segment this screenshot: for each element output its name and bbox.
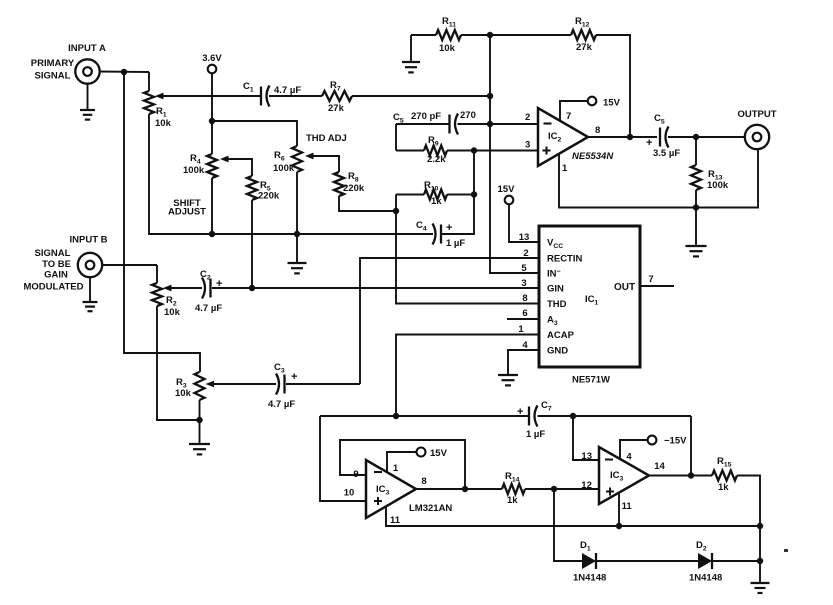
wire (IC3a pin 11 rail) xyxy=(386,507,760,527)
node xyxy=(196,417,202,423)
wire (ACAP rail / C7 row) xyxy=(320,416,366,501)
potentiometer R1 xyxy=(144,91,154,114)
op-amp IC2 NE5534N xyxy=(538,108,588,166)
wire (RECTIN to C3 feed) xyxy=(360,258,539,384)
supply 15V (IC3a) xyxy=(387,452,416,473)
svg-text:3.5 µF: 3.5 µF xyxy=(653,148,680,159)
node xyxy=(693,134,699,140)
svg-text:1: 1 xyxy=(393,463,399,474)
svg-text:THD ADJ: THD ADJ xyxy=(306,133,347,144)
svg-text:GIN: GIN xyxy=(547,284,564,295)
svg-text:100k: 100k xyxy=(707,180,729,191)
svg-text:INPUT B: INPUT B xyxy=(70,235,108,246)
svg-text:GND: GND xyxy=(547,346,568,357)
resistor R13 xyxy=(691,165,701,190)
resistor R15 xyxy=(712,471,737,481)
wire xyxy=(447,194,474,196)
svg-text:8: 8 xyxy=(595,125,600,136)
node (R14/D1 junction) xyxy=(551,486,557,492)
svg-text:NE5534N: NE5534N xyxy=(572,151,614,162)
ground (top-left, under R11 left end) xyxy=(410,35,412,62)
svg-text:THD: THD xyxy=(547,299,567,310)
node xyxy=(693,204,699,210)
wire (C3 right to RECTIN riser) xyxy=(286,383,360,385)
diode D2 1N4148 xyxy=(698,553,712,569)
svg-text:8: 8 xyxy=(522,293,527,304)
wire (R9 right to IC2 pin3) xyxy=(447,150,538,152)
wire (3.6V node to R6) xyxy=(212,121,297,146)
svg-text:15V: 15V xyxy=(603,98,621,109)
node xyxy=(487,93,493,99)
wire (C4 right up to pin3 node) xyxy=(442,151,474,235)
node (output/C7 rail junction) xyxy=(688,472,694,478)
svg-text:−15V: −15V xyxy=(664,436,687,447)
resistor R7 xyxy=(322,91,352,101)
svg-text:10k: 10k xyxy=(175,388,192,399)
node xyxy=(757,523,763,529)
svg-text:10k: 10k xyxy=(164,307,181,318)
capacitor C3 xyxy=(283,375,285,394)
svg-text:15V: 15V xyxy=(430,448,448,459)
resistor R14 xyxy=(502,484,525,494)
potentiometer R4 xyxy=(207,154,217,178)
svg-text:100k: 100k xyxy=(183,165,205,176)
wire xyxy=(102,264,157,266)
svg-text:PRIMARY: PRIMARY xyxy=(31,58,75,69)
ground (IC1 GND) xyxy=(508,350,539,375)
wire (pin 11 to rail) xyxy=(618,492,620,526)
svg-text:TO BE: TO BE xyxy=(42,259,71,270)
svg-text:100k: 100k xyxy=(273,163,295,174)
svg-text:1k: 1k xyxy=(431,196,442,207)
wire (bias bus) xyxy=(149,233,433,235)
svg-text:ACAP: ACAP xyxy=(547,330,575,341)
svg-text:7: 7 xyxy=(566,111,571,122)
op-amp IC3a LM321AN xyxy=(366,460,416,518)
wire (IC2 pin1 to output ground rail) xyxy=(559,150,758,208)
svg-text:1 µF: 1 µF xyxy=(526,429,545,440)
wire (R12 right, down to IC2 output) xyxy=(596,35,630,137)
svg-text:INPUT A: INPUT A xyxy=(68,43,106,54)
wire (down to D1) xyxy=(554,489,582,561)
supply 15V (IC1 VCC) xyxy=(505,196,514,205)
svg-text:2: 2 xyxy=(525,112,530,123)
capacitor C6 3.5uF (labelled C5) xyxy=(659,128,661,147)
svg-text:10: 10 xyxy=(344,488,355,499)
svg-text:SIGNAL: SIGNAL xyxy=(35,71,71,82)
node (R11/R12 junction) xyxy=(487,32,493,38)
svg-text:220k: 220k xyxy=(258,191,280,202)
wire xyxy=(461,34,571,36)
wire (C2 to GIN) xyxy=(212,287,539,289)
wire (summing node vertical to IN-) xyxy=(490,35,539,273)
wire (down to pin 13) xyxy=(573,416,599,460)
wire xyxy=(712,560,760,562)
wire xyxy=(100,71,149,74)
wire (R4 wiper to R5) xyxy=(229,159,253,176)
svg-text:NE571W: NE571W xyxy=(572,375,610,386)
wire (R6 bottom to bus) xyxy=(296,172,298,234)
node (R5/C2 junction) xyxy=(249,285,255,291)
wire (R1 bottom to bus) xyxy=(149,114,212,234)
svg-text:4.7 µF: 4.7 µF xyxy=(274,85,301,96)
svg-text:15V: 15V xyxy=(498,184,516,195)
svg-text:OUT: OUT xyxy=(614,282,635,293)
wire xyxy=(148,72,150,91)
wire (R4 bottom to bus) xyxy=(211,178,213,234)
stray mark xyxy=(784,549,788,552)
diode D1 1N4148 xyxy=(582,553,596,569)
wire xyxy=(458,123,539,125)
wire xyxy=(214,383,276,385)
node xyxy=(209,118,215,124)
resistor R10 xyxy=(396,194,424,196)
svg-text:11: 11 xyxy=(622,501,633,512)
svg-text:RECTIN: RECTIN xyxy=(547,254,583,265)
ground (INPUT A) xyxy=(87,84,89,110)
svg-text:LM321AN: LM321AN xyxy=(409,503,452,514)
svg-text:3.6V: 3.6V xyxy=(202,53,222,64)
svg-text:27k: 27k xyxy=(576,42,593,53)
node xyxy=(616,523,622,529)
connector OUTPUT xyxy=(745,125,769,149)
node xyxy=(471,191,477,197)
capacitor C1 xyxy=(260,87,262,106)
svg-text:GAIN: GAIN xyxy=(44,270,68,281)
svg-text:1: 1 xyxy=(518,324,524,335)
wire (R10 left down to THD junction, down to THD pin) xyxy=(396,195,539,304)
capacitor C5 270pF xyxy=(396,123,449,125)
node xyxy=(462,486,468,492)
node A (input A junction) xyxy=(121,69,127,75)
svg-text:OUTPUT: OUTPUT xyxy=(737,109,776,120)
pin 7 OUT stub xyxy=(640,285,674,287)
wire (input A long vertical) xyxy=(124,72,200,372)
svg-text:220k: 220k xyxy=(343,183,365,194)
wiper arrow (R4 tap) xyxy=(220,156,229,163)
node xyxy=(471,147,477,153)
node xyxy=(294,231,300,237)
ground (output) xyxy=(695,208,697,247)
ground (bus, under R6) xyxy=(296,234,298,263)
svg-text:ADJUST: ADJUST xyxy=(168,207,206,218)
node (C7 / IC3b minus input) xyxy=(570,413,576,419)
wire xyxy=(164,95,261,97)
wire xyxy=(668,136,745,138)
wire (R6 wiper to R8) xyxy=(314,156,340,172)
node (ACAP junction) xyxy=(393,413,399,419)
wire xyxy=(211,73,213,154)
op-amp IC3b xyxy=(599,447,649,504)
IC U1 NE571W box xyxy=(539,226,640,367)
capacitor C7 xyxy=(528,407,530,426)
svg-text:1N4148: 1N4148 xyxy=(689,573,722,584)
wire (IC3a output) xyxy=(416,488,502,490)
node (output / R12 junction) xyxy=(627,134,633,140)
svg-text:13: 13 xyxy=(581,451,592,462)
wiper arrow (R2 tap) xyxy=(163,285,172,292)
svg-text:5: 5 xyxy=(521,263,527,274)
wire (R2 bottom) xyxy=(157,306,200,420)
svg-text:6: 6 xyxy=(522,308,527,319)
svg-text:+: + xyxy=(646,137,652,149)
supply -15V (IC3b pin 4) xyxy=(620,440,648,459)
wiper arrow (R1 tap) xyxy=(155,93,164,100)
svg-text:MODULATED: MODULATED xyxy=(24,282,84,293)
svg-text:+: + xyxy=(446,222,452,234)
svg-text:3: 3 xyxy=(525,140,530,151)
wire (R14 to IC3b pin 12) xyxy=(525,488,599,490)
capacitor C4 xyxy=(440,225,442,244)
wire (IC2 output) xyxy=(588,136,657,138)
svg-text:27k: 27k xyxy=(328,103,345,114)
wire (R8 bottom to THD node) xyxy=(339,196,396,211)
resistor R5 xyxy=(247,176,257,200)
capacitor C2 xyxy=(209,279,211,298)
svg-text:1k: 1k xyxy=(507,495,518,506)
node xyxy=(209,231,215,237)
svg-text:10k: 10k xyxy=(155,118,172,129)
ground (bottom right) xyxy=(759,561,761,583)
wire (pin 9 feedback loop) xyxy=(340,440,465,489)
svg-text:10k: 10k xyxy=(439,43,456,54)
wire (C5-R9 left tie) xyxy=(395,124,397,151)
wire xyxy=(269,95,322,97)
connector INPUT B xyxy=(78,253,102,277)
ground (INPUT B) xyxy=(89,277,91,302)
resistor R8 xyxy=(334,172,344,196)
potentiometer R6 xyxy=(292,146,302,172)
svg-text:+: + xyxy=(517,406,523,418)
svg-text:11: 11 xyxy=(390,515,401,526)
svg-text:12: 12 xyxy=(581,480,592,491)
svg-text:SIGNAL: SIGNAL xyxy=(35,248,71,259)
wire xyxy=(596,560,698,562)
connector INPUT A xyxy=(75,59,99,83)
node xyxy=(487,121,493,127)
svg-text:1k: 1k xyxy=(718,482,729,493)
svg-text:8: 8 xyxy=(421,476,426,487)
node xyxy=(757,558,763,564)
resistor R9 xyxy=(396,150,424,152)
wire (IC3b output pin 14) xyxy=(649,475,712,477)
wire (ACAP down to C7 rail) xyxy=(396,335,539,417)
wire xyxy=(172,287,203,289)
wire (R5 bottom to C2 node) xyxy=(251,200,253,288)
ground (R2/R3) xyxy=(199,420,201,444)
wire xyxy=(538,415,692,417)
svg-text:270 pF: 270 pF xyxy=(411,111,441,122)
wire (R3 bottom) xyxy=(199,400,201,420)
svg-text:270: 270 xyxy=(460,110,476,121)
svg-text:4: 4 xyxy=(626,452,632,463)
svg-text:1: 1 xyxy=(562,163,568,174)
wiper arrow (R6 tap) xyxy=(305,153,314,160)
wire (R15 right down to rail) xyxy=(737,476,760,562)
svg-text:2.2k: 2.2k xyxy=(427,154,446,165)
wire xyxy=(411,34,436,36)
svg-text:7: 7 xyxy=(648,274,653,285)
svg-text:4.7 µF: 4.7 µF xyxy=(195,303,222,314)
resistor R12 xyxy=(571,30,596,40)
supply 15V (IC2 pin7) xyxy=(560,101,588,121)
svg-text:1 µF: 1 µF xyxy=(446,238,465,249)
resistor R11 xyxy=(436,30,461,40)
node (R8/R10/THD junction) xyxy=(393,208,399,214)
potentiometer R2 xyxy=(156,265,158,283)
svg-text:14: 14 xyxy=(654,461,665,472)
wire xyxy=(352,95,490,97)
potentiometer R3 xyxy=(195,372,205,400)
svg-text:1N4148: 1N4148 xyxy=(573,573,606,584)
svg-text:+: + xyxy=(291,371,297,383)
wiper arrow (R3 tap) xyxy=(206,381,215,388)
wire xyxy=(695,137,697,165)
supply 3.6V xyxy=(208,65,217,74)
wire (C7 rail down to IC3b output) xyxy=(690,416,692,476)
svg-text:4.7 µF: 4.7 µF xyxy=(268,399,295,410)
